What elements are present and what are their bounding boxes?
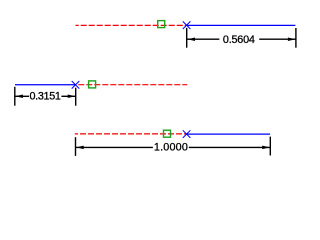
dimension D3 line left segment: [76, 146, 153, 148]
node: row1 blue X point marker: [183, 21, 191, 29]
dimension D3 arrowhead right: [262, 146, 270, 150]
node: row2 blue X point marker: [72, 81, 80, 89]
dimension D1 line right segment: [259, 38, 295, 40]
dimension D1 extension line left: [186, 28, 188, 48]
svg-text:0.5604: 0.5604: [223, 34, 255, 46]
dimension D2 arrowhead right: [68, 95, 76, 99]
dimension D3 extension line left: [75, 137, 77, 156]
dimension D2 line left segment: [15, 95, 29, 97]
wire: row3 red dashed construction line: [75, 133, 187, 135]
dimension D3 arrowhead left: [76, 146, 84, 150]
svg-text:1.0000: 1.0000: [154, 141, 188, 153]
grip: row3 green grip square: [164, 130, 171, 137]
node: row3 blue X point marker: [183, 130, 191, 138]
svg-text:0.3151: 0.3151: [29, 90, 60, 102]
dimension D1 extension line right: [295, 28, 297, 48]
dimension D2 line right segment: [61, 95, 75, 97]
dimension D1 line left segment: [187, 38, 219, 40]
dimension D3 extension line right: [269, 137, 271, 156]
wire: row3 blue solid line segment: [187, 133, 271, 135]
wire: row2 red dashed construction line: [76, 84, 188, 86]
dimension D2 extension line right: [75, 88, 77, 106]
grip: row2 green grip square: [89, 81, 96, 88]
wire: row2 blue solid line segment: [15, 84, 76, 86]
wire: row1 blue solid line segment: [187, 24, 296, 26]
grip: row1 green grip square: [158, 21, 165, 28]
dimension D1 arrowhead right: [288, 37, 296, 41]
dimension D2 arrowhead left: [15, 95, 23, 99]
wire: row1 red dashed construction line: [76, 24, 187, 26]
dimension D3 line right segment: [189, 146, 270, 148]
dimension D2 extension line left: [14, 87, 16, 106]
dimension D1 arrowhead left: [187, 37, 195, 41]
